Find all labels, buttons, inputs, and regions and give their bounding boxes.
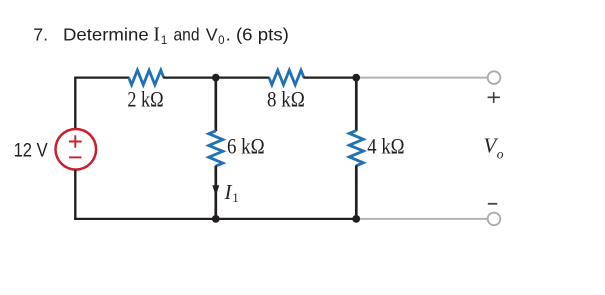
minus sign inside source — [69, 156, 81, 158]
voltage source 12 V (circle) — [56, 129, 97, 170]
svg-text:. (6 pts): . (6 pts) — [226, 25, 289, 45]
resistor 2 kOhm (horizontal zigzag) — [129, 70, 164, 85]
wire middle rail lower (6k down to bottom node) — [214, 166, 217, 219]
svg-text:I: I — [153, 25, 160, 46]
wire right rail lower (4k down to bottom node) — [355, 165, 358, 219]
svg-text:6 kΩ: 6 kΩ — [227, 133, 265, 158]
wire left rail lower (source down to bottom corner) — [74, 170, 76, 220]
wire top middle between 2k and 8k — [163, 76, 269, 78]
polarity minus for Vo — [488, 203, 498, 205]
svg-text:7.: 7. — [33, 25, 48, 45]
terminal bottom (open circle) — [488, 213, 501, 226]
svg-text:Determine: Determine — [63, 25, 149, 45]
svg-text:2 kΩ: 2 kΩ — [127, 86, 163, 111]
svg-text:8 kΩ: 8 kΩ — [267, 86, 305, 111]
node top right — [352, 74, 360, 82]
svg-text:o: o — [497, 146, 504, 161]
svg-text:1: 1 — [161, 35, 167, 47]
svg-text:4 kΩ: 4 kΩ — [367, 134, 404, 159]
node bottom right — [352, 215, 360, 223]
wire gray top lead to output terminal — [356, 77, 487, 79]
svg-text:I: I — [224, 180, 233, 204]
wire right rail upper (top node to 4k) — [355, 78, 358, 131]
terminal top (open circle) — [488, 71, 501, 84]
svg-text:1: 1 — [232, 190, 239, 205]
svg-text:12 V: 12 V — [14, 140, 48, 162]
svg-text:0: 0 — [218, 35, 224, 47]
svg-text:V: V — [206, 25, 218, 45]
node top middle — [212, 74, 220, 82]
current arrow I1 (arrowhead on middle rail) — [212, 185, 219, 196]
wire gray bottom lead to output terminal — [356, 218, 487, 220]
resistor 8 kOhm (horizontal zigzag) — [269, 70, 304, 85]
title: 7. Determine I1 and V0. (6 pts) — [33, 25, 289, 47]
resistor 6 kOhm (vertical zigzag) — [209, 131, 223, 166]
node bottom middle — [212, 215, 220, 223]
svg-text:and: and — [174, 25, 200, 45]
wire top right from 8k to right node — [303, 76, 356, 78]
wire left rail upper (top corner down to source) — [74, 77, 76, 130]
polarity plus for Vo — [488, 92, 500, 103]
plus sign inside source — [69, 135, 82, 148]
wire bottom horizontal — [74, 218, 356, 220]
wire middle rail upper (top node to 6k) — [214, 78, 217, 132]
resistor 4 kOhm (vertical zigzag) — [349, 131, 363, 166]
wire top-left horizontal from left rail to 2k resistor — [75, 76, 129, 78]
